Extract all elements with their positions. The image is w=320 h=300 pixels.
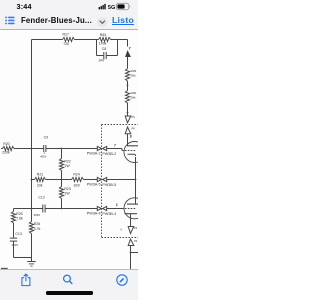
wire	[62, 208, 98, 210]
nav title	[21, 16, 92, 25]
node P down-arrow	[125, 116, 131, 123]
search icon	[62, 274, 74, 286]
svg-text:R63: R63	[100, 33, 106, 37]
wire	[13, 209, 15, 212]
wire	[31, 40, 33, 222]
svg-text:.1: .1	[43, 151, 46, 155]
capacitor C9	[43, 145, 45, 152]
tube V2 plate	[127, 145, 139, 147]
ground	[27, 261, 35, 263]
battery	[116, 3, 129, 9]
wire	[127, 40, 129, 47]
resistor R29	[125, 69, 129, 82]
tube V2 grid	[122, 150, 137, 152]
svg-text:100k: 100k	[99, 41, 107, 45]
wire	[46, 148, 61, 150]
resistor R22	[59, 159, 63, 171]
node Y arrow	[125, 50, 131, 57]
svg-text:R25: R25	[16, 212, 22, 216]
wire	[127, 57, 129, 69]
svg-text:R24: R24	[73, 172, 79, 176]
home indicator	[46, 291, 93, 294]
schematic content	[0, 28, 138, 269]
sheet corner	[1, 267, 8, 269]
capacitor C12	[32, 208, 43, 210]
svg-text:R22: R22	[64, 159, 70, 163]
wire	[127, 103, 129, 116]
wire	[130, 214, 132, 227]
resistor R30	[125, 91, 129, 104]
resistor R27	[63, 37, 75, 41]
wire	[135, 180, 137, 205]
wire	[135, 157, 137, 180]
resistor R26	[29, 222, 33, 234]
wire	[118, 39, 128, 41]
tube V3 plate	[127, 203, 139, 205]
status time 3:44	[17, 2, 32, 11]
tube V3 envelope	[124, 198, 145, 219]
svg-text:56k: 56k	[131, 73, 136, 77]
wire	[14, 208, 32, 210]
resistor R23	[59, 187, 63, 199]
svg-text:R26: R26	[34, 222, 40, 226]
wire	[31, 234, 33, 262]
junction	[130, 252, 132, 254]
nav: list icon	[4, 15, 16, 26]
connector PW3B-5	[103, 177, 107, 181]
svg-text:250V: 250V	[12, 243, 19, 247]
svg-text:7.5k: 7.5k	[16, 216, 23, 220]
svg-text:P6: P6	[132, 127, 136, 131]
status icons	[94, 0, 138, 13]
svg-text:PW3B-5: PW3B-5	[102, 183, 116, 187]
svg-text:R29: R29	[131, 69, 137, 73]
cellular bars	[99, 4, 106, 9]
wire	[107, 148, 122, 150]
junction	[61, 208, 63, 210]
svg-text:820: 820	[74, 183, 80, 187]
wire	[127, 81, 129, 91]
svg-text:PW3A-2: PW3A-2	[87, 152, 101, 156]
svg-text:220k: 220k	[2, 150, 10, 154]
svg-text:C13: C13	[15, 232, 21, 236]
wire	[32, 148, 44, 150]
svg-text:PW3B-2: PW3B-2	[102, 152, 116, 156]
tube V2 envelope	[124, 142, 145, 163]
junction	[127, 84, 129, 86]
svg-text:P4: P4	[134, 226, 138, 230]
svg-text:2: 2	[116, 203, 118, 207]
wire	[107, 208, 122, 210]
markup icon	[116, 274, 128, 286]
svg-text:P6: P6	[132, 115, 136, 119]
wire	[13, 223, 15, 238]
svg-text:P4: P4	[134, 239, 138, 243]
chevron button	[97, 17, 108, 28]
node P up-arrow	[125, 127, 131, 134]
wire	[84, 179, 98, 181]
svg-text:PW3B-4: PW3B-4	[102, 212, 116, 216]
svg-text:250V: 250V	[34, 213, 41, 217]
wire	[130, 246, 132, 270]
connector PW3A-5	[97, 177, 101, 181]
wire	[32, 39, 63, 41]
svg-text:56k: 56k	[131, 95, 136, 99]
resistor R24	[72, 177, 84, 181]
resistor R20	[3, 146, 15, 150]
junction	[31, 148, 33, 150]
wire	[32, 179, 35, 181]
resistor R21	[35, 177, 46, 181]
wire	[46, 179, 62, 181]
svg-text:PW3A-5: PW3A-5	[87, 183, 101, 187]
svg-text:R30: R30	[131, 91, 137, 95]
junction	[31, 208, 33, 210]
svg-text:R21: R21	[37, 172, 43, 176]
capacitor C8	[97, 55, 104, 57]
wire	[117, 40, 119, 56]
wire	[131, 252, 139, 254]
svg-text:PW3A-4: PW3A-4	[87, 211, 101, 215]
svg-text:4.7k: 4.7k	[34, 227, 41, 231]
node V down-arrow	[128, 227, 134, 234]
resistor R25	[11, 212, 15, 224]
wire	[96, 40, 98, 56]
board boundary dashed	[102, 124, 139, 126]
svg-text:Y: Y	[129, 47, 132, 51]
connector PW3B-2	[103, 146, 107, 150]
svg-text:R27: R27	[63, 33, 69, 37]
wire	[75, 39, 99, 41]
connector PW3A-2	[97, 146, 101, 150]
wire	[61, 171, 63, 180]
tube V3 cathode	[125, 213, 138, 215]
connector PW3B-4	[103, 206, 107, 210]
junction	[61, 179, 63, 181]
node V up-arrow	[128, 239, 134, 245]
svg-text:V: V	[120, 228, 122, 232]
wire	[107, 179, 136, 181]
wire	[13, 241, 15, 257]
capacitor C13	[10, 237, 17, 239]
tube V3 grid	[122, 208, 137, 210]
wire	[62, 148, 98, 150]
junction	[61, 148, 63, 150]
svg-text:R23: R23	[64, 187, 70, 191]
svg-text:R20: R20	[3, 142, 9, 146]
wire	[61, 180, 63, 187]
Listo button	[112, 15, 134, 25]
status bar	[0, 0, 138, 30]
svg-text:C9: C9	[44, 135, 49, 139]
share icon	[20, 273, 32, 287]
svg-text:C12: C12	[38, 195, 44, 199]
svg-text:400V: 400V	[40, 154, 46, 158]
svg-text:72k: 72k	[63, 42, 69, 46]
junction	[31, 179, 33, 181]
bottom toolbar	[0, 269, 138, 300]
svg-text:5G: 5G	[108, 5, 115, 11]
svg-text:1W: 1W	[64, 191, 70, 195]
connector PW3A-4	[97, 206, 101, 210]
wire	[61, 149, 63, 159]
svg-text:C8: C8	[102, 47, 107, 51]
tube V2 cathode	[128, 154, 136, 156]
svg-text:8: 8	[130, 134, 132, 138]
svg-text:33k: 33k	[37, 183, 43, 187]
wire	[127, 134, 129, 146]
junction	[135, 179, 137, 181]
svg-text:7: 7	[114, 144, 116, 148]
wire	[111, 39, 118, 41]
resistor R63	[99, 37, 111, 41]
wire	[1, 148, 3, 150]
svg-text:1W: 1W	[64, 164, 70, 168]
svg-text:.047: .047	[98, 59, 105, 63]
